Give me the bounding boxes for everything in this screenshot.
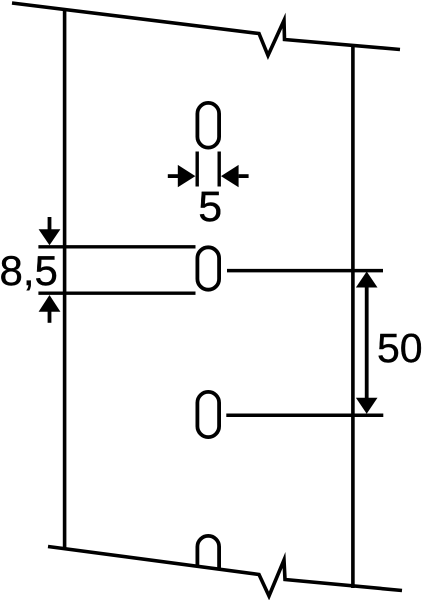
dimension 50: top arrowhead (pointing up) xyxy=(356,272,378,288)
dimension 8,5: top extension line xyxy=(38,245,195,248)
dimension 5: left leader tail xyxy=(168,174,179,178)
centerline from lower slot to right xyxy=(226,414,383,418)
svg-text:50: 50 xyxy=(377,325,423,371)
dimension 5: right leader tail xyxy=(239,174,249,178)
svg-text:8,5: 8,5 xyxy=(0,247,58,294)
svg-text:5: 5 xyxy=(198,183,222,231)
dimension 50: vertical dimension line xyxy=(365,280,369,405)
dimension 5: left arrowhead xyxy=(178,165,196,187)
dimension 5: right extension line xyxy=(217,152,220,187)
dimension 8,5: top arrowhead (pointing down) xyxy=(39,229,61,245)
plate top edge with break line xyxy=(12,3,400,56)
slot 4 (partial slot cut by bottom break) xyxy=(197,536,219,581)
dimension 8,5: bottom extension line xyxy=(38,292,195,295)
plate right edge xyxy=(351,45,355,589)
dimension 50: bottom arrowhead (pointing down) xyxy=(356,398,378,414)
dimension 8,5: bottom arrow tail xyxy=(48,311,52,323)
dimension 5: right arrowhead xyxy=(221,165,239,187)
centerline from middle slot to right xyxy=(227,269,383,273)
plate bottom edge with break line xyxy=(48,547,402,597)
dimension 8,5: bottom arrowhead (pointing up) xyxy=(39,295,61,312)
plate left edge xyxy=(63,8,67,549)
slot 3 (lower slotted hole) xyxy=(197,392,219,437)
slot 1 (top slotted hole) xyxy=(197,103,219,148)
dimension 8,5: top arrow tail xyxy=(48,217,52,230)
dimension 5: left extension line xyxy=(195,152,198,187)
slot 2 (middle slotted hole) xyxy=(197,247,219,289)
